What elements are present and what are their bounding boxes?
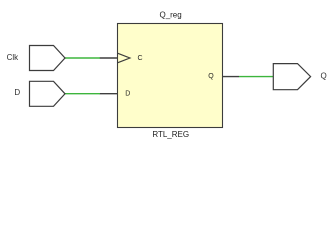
register block Q_reg (RTL_REG) — [118, 24, 223, 128]
svg-text:Q: Q — [320, 71, 326, 80]
svg-text:Q: Q — [208, 73, 214, 80]
svg-text:C: C — [138, 55, 143, 62]
pin stub C — [100, 57, 118, 59]
net Clk wire — [65, 57, 101, 59]
pin stub D — [100, 93, 118, 95]
svg-text:D: D — [14, 88, 20, 97]
svg-text:Clk: Clk — [7, 53, 20, 62]
input port Clk — [30, 46, 66, 71]
pin stub Q — [223, 76, 240, 78]
net D wire — [65, 93, 101, 95]
svg-text:RTL_REG: RTL_REG — [152, 130, 189, 139]
net Q wire — [239, 76, 274, 78]
svg-text:D: D — [125, 91, 130, 98]
input port D — [30, 81, 66, 106]
clock edge triangle — [118, 53, 131, 63]
svg-text:Q_reg: Q_reg — [159, 11, 181, 20]
output port Q — [273, 64, 310, 90]
